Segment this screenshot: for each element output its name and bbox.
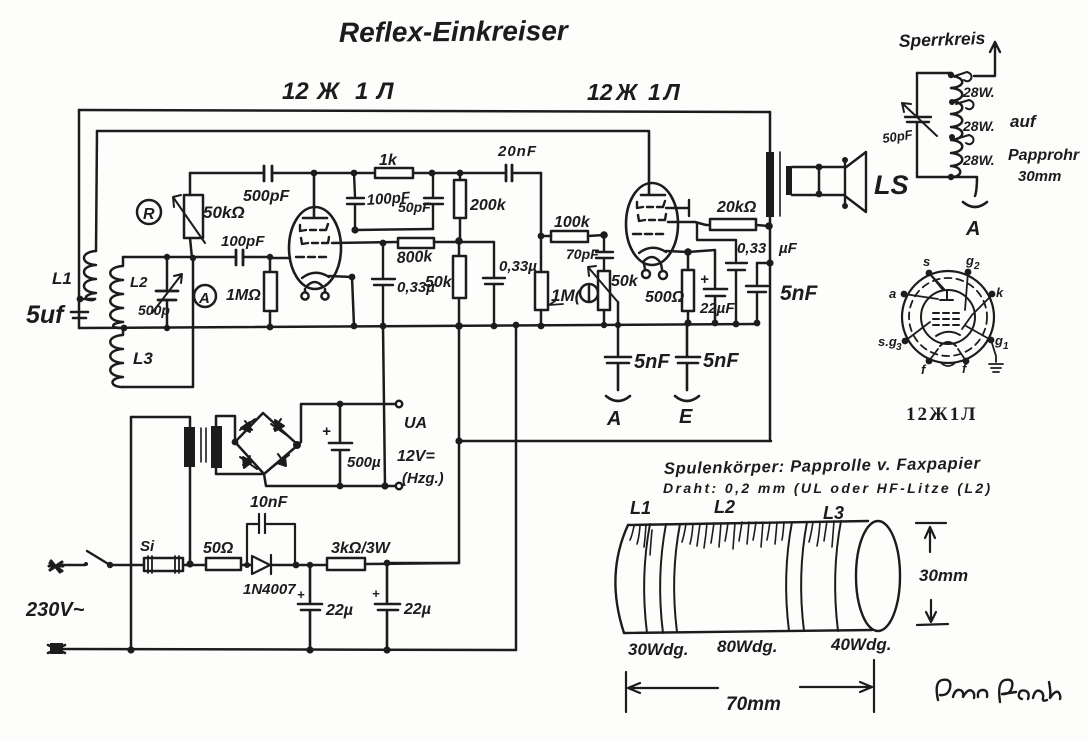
svg-text:(Hzg.): (Hzg.): [402, 470, 444, 487]
capacitor variable 50pF branch: [905, 73, 931, 177]
node 20k right: [765, 222, 773, 230]
loudspeaker LS: [845, 152, 866, 212]
transformer T1 secondary: [786, 166, 792, 195]
capacitor 100pF anode: [347, 173, 364, 231]
terminal A sperrkreis: [963, 202, 987, 207]
wire secondary bottom to bridge: [216, 468, 262, 474]
wire cathode1 to rail: [329, 276, 354, 326]
svg-text:28W.: 28W.: [962, 152, 995, 168]
svg-text:A: A: [198, 290, 210, 307]
svg-text:200k: 200k: [469, 197, 507, 214]
tube V1 12Ж1Л envelope: [289, 207, 341, 289]
svg-text:+: +: [372, 586, 380, 601]
svg-text:30Wdg.: 30Wdg.: [628, 640, 688, 659]
svg-text:2: 2: [973, 261, 980, 272]
capacitor 500pF: [264, 166, 272, 181]
diode bridge D3: [240, 456, 257, 469]
coil former body: [624, 521, 872, 633]
node 500p top: [164, 254, 170, 260]
terminal E: [675, 396, 699, 401]
node 500p bottom: [164, 325, 170, 331]
svg-text:LS: LS: [874, 170, 909, 200]
capacitor 5nF output: [746, 263, 768, 323]
wire anode supply line y173: [190, 172, 541, 175]
wire outer top rail: [79, 110, 770, 112]
terminal mains phase: [49, 561, 63, 572]
svg-text:5nF: 5nF: [634, 351, 670, 373]
node ground link PSU: [381, 482, 388, 489]
arrow variable cap: [902, 103, 937, 136]
tube V1 cathode: [302, 273, 329, 278]
svg-text:28W.: 28W.: [962, 118, 995, 134]
svg-text:L2: L2: [130, 274, 148, 291]
svg-text:auf: auf: [1010, 112, 1038, 131]
resistor 50k screen: [453, 256, 466, 298]
transformer T2 core: [201, 428, 206, 462]
terminal mains neutral: [50, 643, 63, 654]
socket cathode arc: [936, 332, 960, 336]
socket pin g1: [988, 337, 995, 344]
node 500µ top: [337, 401, 344, 408]
wire output rail vertical: [769, 112, 772, 441]
node R circle: [137, 200, 161, 224]
wire anode2 output: [668, 222, 710, 225]
terminal A: [606, 396, 630, 401]
svg-text:22µ: 22µ: [403, 601, 431, 618]
resistor 20kΩ: [710, 219, 756, 230]
socket ground symbol: [989, 340, 1003, 372]
wire ground bottom rail: [79, 324, 756, 328]
svg-text:Si: Si: [140, 538, 155, 555]
svg-text:Papprohr: Papprohr: [1008, 147, 1080, 164]
svg-text:5uf: 5uf: [26, 301, 66, 329]
wire PSU minus rail: [264, 474, 395, 486]
svg-text:Draht: 0,2 mm (UL oder HF-Litz: Draht: 0,2 mm (UL oder HF-Litze (L2): [663, 480, 993, 496]
svg-text:A: A: [606, 408, 621, 430]
svg-text:50pF: 50pF: [398, 199, 431, 215]
svg-text:50k: 50k: [425, 274, 453, 291]
svg-text:5nF: 5nF: [703, 350, 739, 372]
wire grid2 feedback line 800k: [332, 242, 398, 243]
svg-text:g: g: [994, 333, 1003, 348]
wire ground link y441: [459, 440, 771, 443]
winding hatch L3: [809, 521, 834, 547]
socket pin k: [989, 291, 996, 298]
svg-text:100k: 100k: [554, 214, 591, 231]
node 10nF right: [293, 562, 300, 569]
svg-text:1MΩ: 1MΩ: [226, 287, 261, 304]
node 500Ω rail: [684, 319, 691, 326]
wire inner top rail: [97, 130, 648, 133]
socket pin a: [901, 291, 908, 298]
node 50k rail: [455, 322, 463, 330]
wire mains bottom rail: [62, 649, 516, 650]
resistor 3kΩ/3W: [327, 558, 365, 570]
svg-text:500µ: 500µ: [347, 454, 381, 471]
capacitor 10nF bypass: [247, 514, 295, 564]
svg-text:3: 3: [896, 342, 902, 353]
wire wiper to A coupling: [617, 302, 620, 356]
node wiper rail crossing: [615, 322, 621, 328]
wire L1 bottom to rail: [80, 298, 95, 301]
wire 50pF return to grid: [356, 229, 433, 230]
capacitor 100pF grid: [236, 250, 243, 265]
coil sperrkreis: [951, 73, 962, 177]
capacitor 5nF earth: [676, 324, 700, 390]
tube V1 anode: [303, 173, 327, 218]
signature: [937, 680, 988, 700]
tube V1 grid row g1: [296, 256, 326, 258]
wire sperrkreis top: [917, 72, 951, 75]
svg-text:500p: 500p: [138, 302, 170, 318]
diode 1N4007: [252, 555, 271, 574]
tube V2 12Ж1Л envelope: [626, 183, 678, 265]
svg-text:+: +: [700, 271, 709, 288]
svg-text:50kΩ: 50kΩ: [203, 203, 245, 222]
divider L1 right: [644, 524, 650, 633]
diode bridge D4: [272, 454, 289, 467]
socket anode bar: [929, 273, 953, 300]
resistor 50Ω: [206, 558, 241, 570]
capacitor 0,33µ right: [459, 242, 505, 326]
coil former right end: [856, 521, 900, 631]
coil former left rim: [615, 525, 628, 633]
svg-text:1M(: 1M(: [551, 286, 583, 305]
tap top: [955, 72, 972, 81]
fuse Si: [144, 558, 183, 571]
wire 20nF to 100k drop: [540, 173, 543, 236]
node 10nF left: [244, 562, 250, 568]
wire ground drop to PSU rail: [515, 325, 518, 650]
svg-text:E: E: [679, 406, 693, 428]
svg-text:800k: 800k: [396, 248, 434, 267]
svg-text:22µ: 22µ: [325, 602, 353, 619]
node 100pF top: [351, 170, 358, 177]
svg-text:UA: UA: [404, 415, 427, 432]
divider pair right: [786, 522, 807, 631]
svg-text:50pF: 50pF: [881, 127, 914, 146]
svg-text:L3: L3: [823, 503, 844, 523]
node neutral vertical: [127, 646, 134, 653]
tube V1 grid row g3: [300, 224, 328, 231]
wire inner left vertical to L1: [96, 131, 97, 251]
svg-text:0,33: 0,33: [737, 240, 767, 257]
node 22µ first bottom: [306, 646, 313, 653]
node pot2 bottom rail: [601, 322, 607, 328]
node A circle antenna tap: [194, 285, 216, 307]
resistor 1MΩ grid leak: [264, 272, 277, 311]
node 800k left: [380, 240, 387, 247]
tube V2 grid row g2: [638, 214, 666, 221]
node 22µF rail: [712, 320, 719, 327]
capacitor 22µ second: [375, 563, 400, 650]
svg-text:Sperrkreis: Sperrkreis: [898, 28, 985, 51]
node 22µ first top: [307, 562, 313, 568]
svg-text:20kΩ: 20kΩ: [716, 199, 757, 216]
wire grid1 line y257: [123, 257, 290, 258]
svg-text:k: k: [996, 285, 1004, 300]
node bridge minus: [232, 439, 239, 446]
wire B+ to UA terminal: [297, 404, 395, 445]
capacitor 20nF: [506, 165, 512, 181]
svg-text:12V=: 12V=: [397, 448, 435, 465]
capacitor 5nF antenna: [605, 357, 631, 390]
socket grid dashes: [933, 313, 959, 325]
node coil top: [948, 72, 954, 78]
node 200k top: [457, 170, 464, 177]
svg-text:28W.: 28W.: [962, 84, 995, 100]
winding hatch L2: [682, 522, 784, 549]
node tap1: [949, 99, 955, 105]
node anode1: [311, 170, 318, 177]
tube V1 grid row g2: [301, 237, 329, 244]
svg-text:0,33µ: 0,33µ: [499, 258, 537, 275]
node 100k left: [538, 233, 545, 240]
coil L3: [110, 329, 123, 387]
svg-text:L1: L1: [630, 498, 651, 518]
svg-text:s.g: s.g: [878, 334, 897, 349]
resistor 1M stage2: [535, 272, 548, 310]
tube V2 pins: [644, 264, 662, 269]
svg-text:22µF: 22µF: [699, 300, 735, 317]
transformer T1 core: [779, 152, 781, 216]
wire primary bottom to switch line: [189, 467, 192, 564]
tube V1 heater: [306, 282, 323, 287]
coil L1: [84, 251, 96, 300]
node screen junction: [455, 237, 463, 245]
wire mains neutral vertical: [130, 417, 133, 650]
node 5nF bottom rail: [754, 320, 761, 327]
wire cathode2 node: [666, 250, 715, 288]
capacitor 22µF cathode: [704, 289, 727, 323]
transformer T1 primary: [766, 152, 774, 217]
resistor 500Ω cathode: [682, 270, 694, 311]
capacitor variable 500p: [166, 257, 169, 328]
svg-text:20nF: 20nF: [497, 143, 537, 160]
svg-text:1k: 1k: [379, 152, 398, 169]
svg-text:12Ж1Л: 12Ж1Л: [906, 404, 977, 425]
node 22µ second bottom: [383, 646, 390, 653]
resistor 1k: [375, 168, 413, 178]
transformer T2 secondary winding: [211, 426, 222, 468]
node 50pF top: [429, 170, 436, 177]
svg-text:+: +: [322, 423, 331, 440]
tube V1 pins: [305, 289, 325, 292]
svg-text:30mm: 30mm: [1018, 168, 1061, 185]
wire primary top link: [131, 417, 190, 427]
node bridge plus: [293, 441, 301, 449]
socket pin sg3: [902, 338, 909, 345]
terminal UA plus: [396, 401, 402, 407]
svg-text:L3: L3: [133, 349, 153, 368]
resistor 800k: [398, 238, 434, 248]
terminal UA minus: [396, 483, 402, 489]
divider pair left: [660, 524, 680, 633]
svg-text:40Wdg.: 40Wdg.: [830, 635, 891, 654]
resistor 100k: [551, 231, 588, 242]
transformer T2 primary winding: [184, 427, 195, 467]
wire sperrkreis bottom: [917, 177, 977, 196]
node 1M top: [267, 254, 273, 260]
diode bridge D2: [271, 419, 288, 436]
svg-text:f: f: [921, 362, 927, 377]
wire speaker leads: [792, 167, 845, 195]
wire secondary top to bridge: [216, 416, 235, 442]
tube V2 cathode: [639, 248, 666, 253]
wire L3 bottom return: [123, 258, 193, 387]
node cap2 rail: [491, 323, 498, 330]
capacitor antenna 5nf: [71, 312, 88, 318]
node 0,33µF rail: [733, 321, 740, 328]
capacitor 70pF: [596, 235, 613, 271]
socket pin f right: [963, 358, 970, 365]
dimension 30mm: [916, 523, 946, 552]
node speaker top: [816, 164, 823, 171]
resistor 200k: [454, 180, 466, 218]
tube V2 grid row g3: [637, 201, 665, 208]
svg-text:30mm: 30mm: [919, 566, 968, 585]
node 500µ bottom: [337, 483, 344, 490]
svg-text:12Ж1Л: 12Ж1Л: [587, 79, 681, 105]
wire 5nF top to rail: [757, 262, 770, 265]
wire ground drop to PSU minus: [383, 326, 385, 486]
node cathode1 rail: [351, 323, 358, 330]
svg-text:1: 1: [1003, 341, 1009, 352]
divider L3 right: [835, 521, 841, 631]
capacitor 50pF: [424, 173, 443, 229]
diode bridge D1: [240, 419, 255, 432]
svg-text:1N4007: 1N4007: [243, 581, 296, 598]
wire grid3 internal bar: [666, 200, 689, 216]
svg-text:R: R: [143, 206, 155, 223]
node speaker bottom: [816, 191, 823, 198]
svg-text:Spulenkörper: Papprolle v. Fax: Spulenkörper: Papprolle v. Faxpapier: [664, 454, 982, 478]
svg-text:5nF: 5nF: [780, 282, 819, 305]
tube V2 heater: [643, 257, 660, 262]
socket pin f left: [926, 358, 933, 365]
svg-text:a: a: [889, 286, 896, 301]
svg-text:12Ж1Л: 12Ж1Л: [282, 78, 394, 105]
tap middle 2: [956, 135, 974, 144]
switch S1: [87, 551, 110, 565]
svg-text:A: A: [965, 218, 980, 240]
dimension 70mm: [626, 660, 874, 712]
node cathode2: [684, 248, 692, 256]
node cathode1: [349, 274, 356, 281]
coil L2: [110, 257, 123, 328]
socket heater arc: [940, 342, 956, 346]
node tap2: [949, 134, 955, 140]
svg-text:100pF: 100pF: [221, 233, 265, 250]
svg-text:50Ω: 50Ω: [203, 540, 234, 557]
socket dashed circle: [909, 278, 987, 356]
node 22µ second top: [384, 560, 391, 567]
svg-text:s: s: [923, 254, 930, 269]
socket pin g2: [965, 269, 972, 276]
node 100k right grid: [600, 231, 608, 239]
wire switch line: [62, 564, 85, 567]
node 1M2 rail: [538, 323, 545, 330]
tube V2 anode: [641, 131, 665, 195]
winding hatch L1: [630, 525, 652, 555]
potentiometer 50k volume: [598, 271, 610, 310]
node 0,33µ rail: [380, 323, 387, 330]
node x516 rail: [513, 322, 520, 329]
capacitor 22µ first: [298, 565, 322, 650]
svg-text:70mm: 70mm: [726, 694, 781, 715]
svg-text:500Ω: 500Ω: [645, 289, 685, 306]
node L1 bottom on left rail: [77, 296, 84, 303]
tube V2 grid row g1: [633, 233, 663, 236]
wire outer left vertical: [78, 110, 81, 328]
capacitor 500µ: [329, 404, 352, 486]
socket pin s: [926, 270, 933, 277]
svg-text:230V~: 230V~: [25, 599, 85, 621]
node y441 junction: [455, 437, 462, 444]
svg-text:10nF: 10nF: [250, 494, 289, 511]
svg-text:500pF: 500pF: [243, 188, 290, 205]
svg-text:L2: L2: [714, 497, 735, 517]
socket key notch: [941, 363, 955, 366]
capacitor 0,33µF output: [697, 223, 747, 324]
bridge rectifier diamond: [235, 413, 298, 474]
node 1M bottom: [267, 324, 274, 331]
svg-text:g: g: [965, 253, 974, 268]
capacitor 0,33µ left: [372, 243, 395, 326]
node pot/L3 junction: [190, 255, 196, 261]
svg-text:µF: µF: [778, 240, 798, 257]
potentiometer 50kΩ regeneration: [184, 195, 203, 238]
wire sperrkreis arrow out: [974, 42, 1000, 76]
node primary bottom: [186, 560, 193, 567]
node coil bottom: [948, 174, 954, 180]
svg-text:3kΩ/3W: 3kΩ/3W: [331, 540, 392, 557]
node 5nF top: [766, 259, 773, 266]
svg-text:50k: 50k: [611, 273, 639, 290]
tap middle 1: [956, 100, 974, 109]
socket diagram outer circle: [902, 271, 994, 363]
svg-text:Reflex-Einkreiser: Reflex-Einkreiser: [339, 15, 570, 48]
node L2 bottom: [121, 325, 128, 332]
wire screen divider drop: [387, 326, 459, 563]
socket inner circle: [921, 290, 975, 344]
svg-text:L1: L1: [52, 269, 72, 288]
svg-text:70pF: 70pF: [566, 246, 599, 262]
node grid2 junction: [351, 226, 358, 233]
svg-text:+: +: [297, 587, 305, 602]
svg-text:80Wdg.: 80Wdg.: [717, 637, 777, 656]
